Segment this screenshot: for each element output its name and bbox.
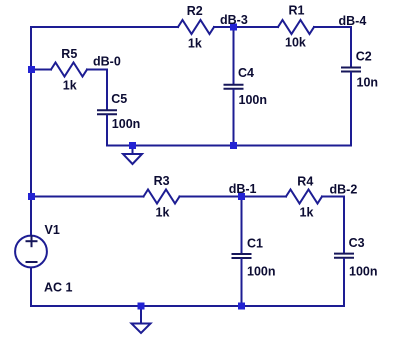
- wire top rail right segment to dB-4 corner: [314, 27, 351, 66]
- wire C4 bottom to mid rail: [233, 90, 235, 146]
- capacitor C4: [225, 85, 243, 89]
- svg-text:1k: 1k: [188, 36, 202, 50]
- capacitor C1: [233, 254, 251, 258]
- svg-text:AC 1: AC 1: [44, 281, 73, 295]
- V1 plus sign: [27, 236, 37, 246]
- wire C1 bottom to bottom rail: [241, 259, 243, 306]
- wire top rail left segment: [31, 27, 178, 235]
- capacitor C2: [342, 68, 360, 72]
- svg-text:1k: 1k: [156, 206, 170, 220]
- svg-text:C4: C4: [238, 66, 254, 80]
- ground stub bottom rail: [140, 306, 142, 323]
- wire C5 bottom to mid rail: [106, 115, 108, 145]
- svg-text:dB-1: dB-1: [229, 182, 257, 196]
- junction second row branch: [28, 193, 35, 200]
- svg-text:V1: V1: [45, 223, 60, 237]
- capacitor C3: [335, 254, 353, 258]
- voltage source V1 circle: [15, 236, 47, 268]
- wire second row right to dB-2 corner down to C3: [322, 197, 344, 253]
- svg-text:10k: 10k: [285, 35, 306, 49]
- junction C1 bottom: [238, 303, 245, 310]
- resistor R5: [51, 63, 87, 77]
- wire second row left segment: [31, 196, 144, 198]
- wire dB-3 down to C4: [233, 27, 235, 84]
- svg-text:dB-4: dB-4: [339, 14, 367, 28]
- svg-text:R3: R3: [154, 174, 170, 188]
- svg-text:C3: C3: [349, 236, 365, 250]
- svg-text:C5: C5: [111, 92, 127, 106]
- resistor R4: [286, 190, 322, 204]
- junction mid ground: [129, 142, 136, 149]
- V1 minus sign: [27, 261, 37, 263]
- junction node dB-3: [230, 24, 237, 31]
- wire C2 bottom to mid rail: [107, 73, 351, 146]
- svg-text:100n: 100n: [239, 93, 268, 107]
- svg-text:R4: R4: [297, 175, 313, 189]
- svg-text:R2: R2: [187, 4, 203, 18]
- ground triangle bottom rail: [132, 324, 151, 334]
- resistor R2: [178, 20, 214, 34]
- wire C3 bottom to bottom rail: [343, 259, 345, 306]
- junction node dB-1: [238, 193, 245, 200]
- capacitor C5: [98, 110, 116, 114]
- svg-text:C1: C1: [247, 236, 263, 250]
- svg-text:100n: 100n: [349, 264, 378, 278]
- svg-text:dB-0: dB-0: [93, 55, 121, 69]
- svg-text:R5: R5: [61, 47, 77, 61]
- wire top rail mid segment: [214, 26, 278, 28]
- svg-text:C2: C2: [356, 50, 372, 64]
- junction bottom ground: [138, 303, 145, 310]
- junction R5 branch: [28, 66, 35, 73]
- resistor R3: [144, 190, 180, 204]
- ground triangle mid rail: [123, 154, 142, 164]
- wire R5 branch: [31, 69, 51, 71]
- ground stub mid rail: [132, 146, 134, 154]
- svg-text:1k: 1k: [63, 78, 77, 92]
- svg-text:R1: R1: [289, 4, 305, 18]
- wire dB-1 down to C1: [241, 197, 243, 253]
- svg-text:10n: 10n: [357, 76, 379, 90]
- svg-text:dB-2: dB-2: [330, 183, 358, 197]
- svg-text:dB-3: dB-3: [220, 13, 248, 27]
- resistor R1: [278, 20, 314, 34]
- wire bottom rail: [31, 268, 344, 306]
- wire dB-0 to C5: [87, 70, 107, 110]
- svg-text:1k: 1k: [300, 206, 314, 220]
- svg-text:100n: 100n: [247, 265, 276, 279]
- wire second row mid segment: [180, 196, 287, 198]
- junction C4 bottom: [230, 142, 237, 149]
- svg-text:100n: 100n: [112, 117, 141, 131]
